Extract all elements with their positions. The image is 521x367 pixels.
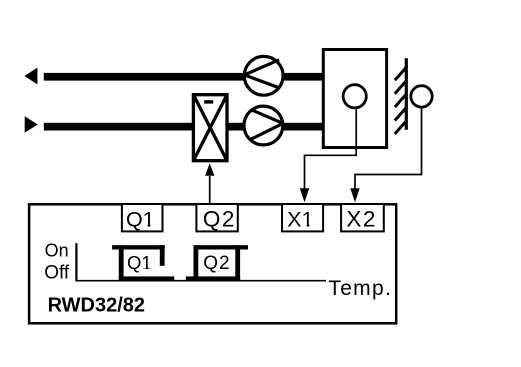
- terminal X2 box: [341, 204, 384, 231]
- svg-text:Q1: Q1: [127, 252, 152, 273]
- svg-text:RWD32/82: RWD32/82: [48, 295, 145, 317]
- mask: terminal Q1 digit-1 serif trim: [144, 225, 155, 228]
- pump P2 (bottom): [244, 106, 283, 145]
- svg-text:Temp.: Temp.: [328, 277, 392, 300]
- controller RWD32/82 outline: [29, 204, 396, 323]
- air handler box: [323, 50, 386, 148]
- svg-text:Off: Off: [44, 262, 70, 283]
- sensor B1 (duct temperature sensor): [343, 85, 366, 108]
- waveform Q2 pulse: [186, 245, 248, 281]
- wire Q2 to valve: [209, 176, 211, 204]
- wire return pipe (bottom): [44, 123, 324, 131]
- svg-text:Q2: Q2: [203, 253, 230, 274]
- sensor B2 (room temperature sensor on wall): [411, 86, 432, 107]
- svg-text:X2: X2: [346, 207, 377, 232]
- arrow into X1: [300, 188, 309, 202]
- pump P1 (top): [244, 56, 283, 95]
- arrow flow-in (left, bottom pipe): [25, 116, 38, 132]
- wire sensor B1 to X1: [305, 107, 357, 191]
- svg-text:Q1: Q1: [126, 208, 155, 232]
- chart y-axis: [75, 243, 77, 281]
- wall: [395, 58, 407, 134]
- terminal Q2 box: [196, 204, 237, 231]
- wire supply pipe (top): [44, 73, 324, 81]
- wire sensor B2 to X2: [355, 108, 422, 191]
- mask: waveform Q1 digit-1 serif trim: [143, 266, 152, 269]
- svg-text:Q2: Q2: [203, 207, 236, 232]
- arrow into X2: [350, 188, 359, 202]
- arrow flow-out (left, top pipe): [25, 68, 38, 85]
- terminal X1 box: [282, 204, 323, 231]
- chart x-axis: [76, 280, 327, 282]
- arrow into valve: [205, 163, 214, 176]
- svg-text:X1: X1: [287, 208, 313, 232]
- terminal Q1 box: [122, 204, 163, 231]
- valve minus label: [204, 100, 213, 103]
- waveform Q1 pulse: [112, 245, 174, 281]
- valve Y1 body: [193, 95, 227, 161]
- svg-text:On: On: [45, 241, 69, 261]
- mask: terminal X1 digit-1 serif trim: [303, 225, 314, 228]
